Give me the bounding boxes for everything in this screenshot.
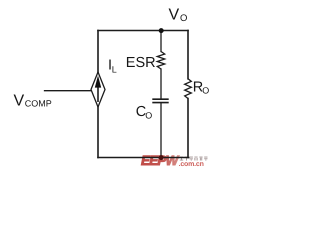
svg-text:O: O — [202, 85, 209, 95]
wire middle branch upper — [160, 31, 162, 52]
wire right branch upper — [187, 31, 189, 79]
node Vo junction dot — [159, 28, 164, 33]
svg-text:ESR: ESR — [126, 55, 156, 71]
svg-text:EEPW: EEPW — [141, 153, 180, 168]
wire middle branch lower — [160, 103, 162, 157]
wire Vcomp input — [45, 90, 92, 92]
resistor Ro zigzag — [185, 79, 192, 99]
wire left branch lower — [97, 107, 99, 158]
svg-text:O: O — [145, 110, 152, 120]
current source arrow — [95, 76, 101, 88]
wire middle branch mid — [160, 69, 162, 99]
resistor ESR zigzag — [157, 52, 164, 70]
svg-text:.com.cn: .com.cn — [179, 161, 204, 168]
svg-text:L: L — [112, 64, 117, 74]
capacitor Co plates — [152, 99, 168, 102]
svg-text:V: V — [169, 7, 180, 24]
svg-text:COMP: COMP — [25, 99, 52, 109]
wire right branch lower — [187, 99, 189, 158]
wire top rail Vo — [98, 30, 188, 32]
current source diamond IL — [91, 72, 105, 107]
svg-text:O: O — [180, 13, 187, 24]
svg-text:V: V — [14, 93, 25, 110]
watermark EEPW logo — [141, 153, 208, 168]
wire left branch upper — [97, 31, 99, 73]
node bottom junction dot — [159, 155, 164, 160]
wire bottom rail — [98, 157, 189, 159]
